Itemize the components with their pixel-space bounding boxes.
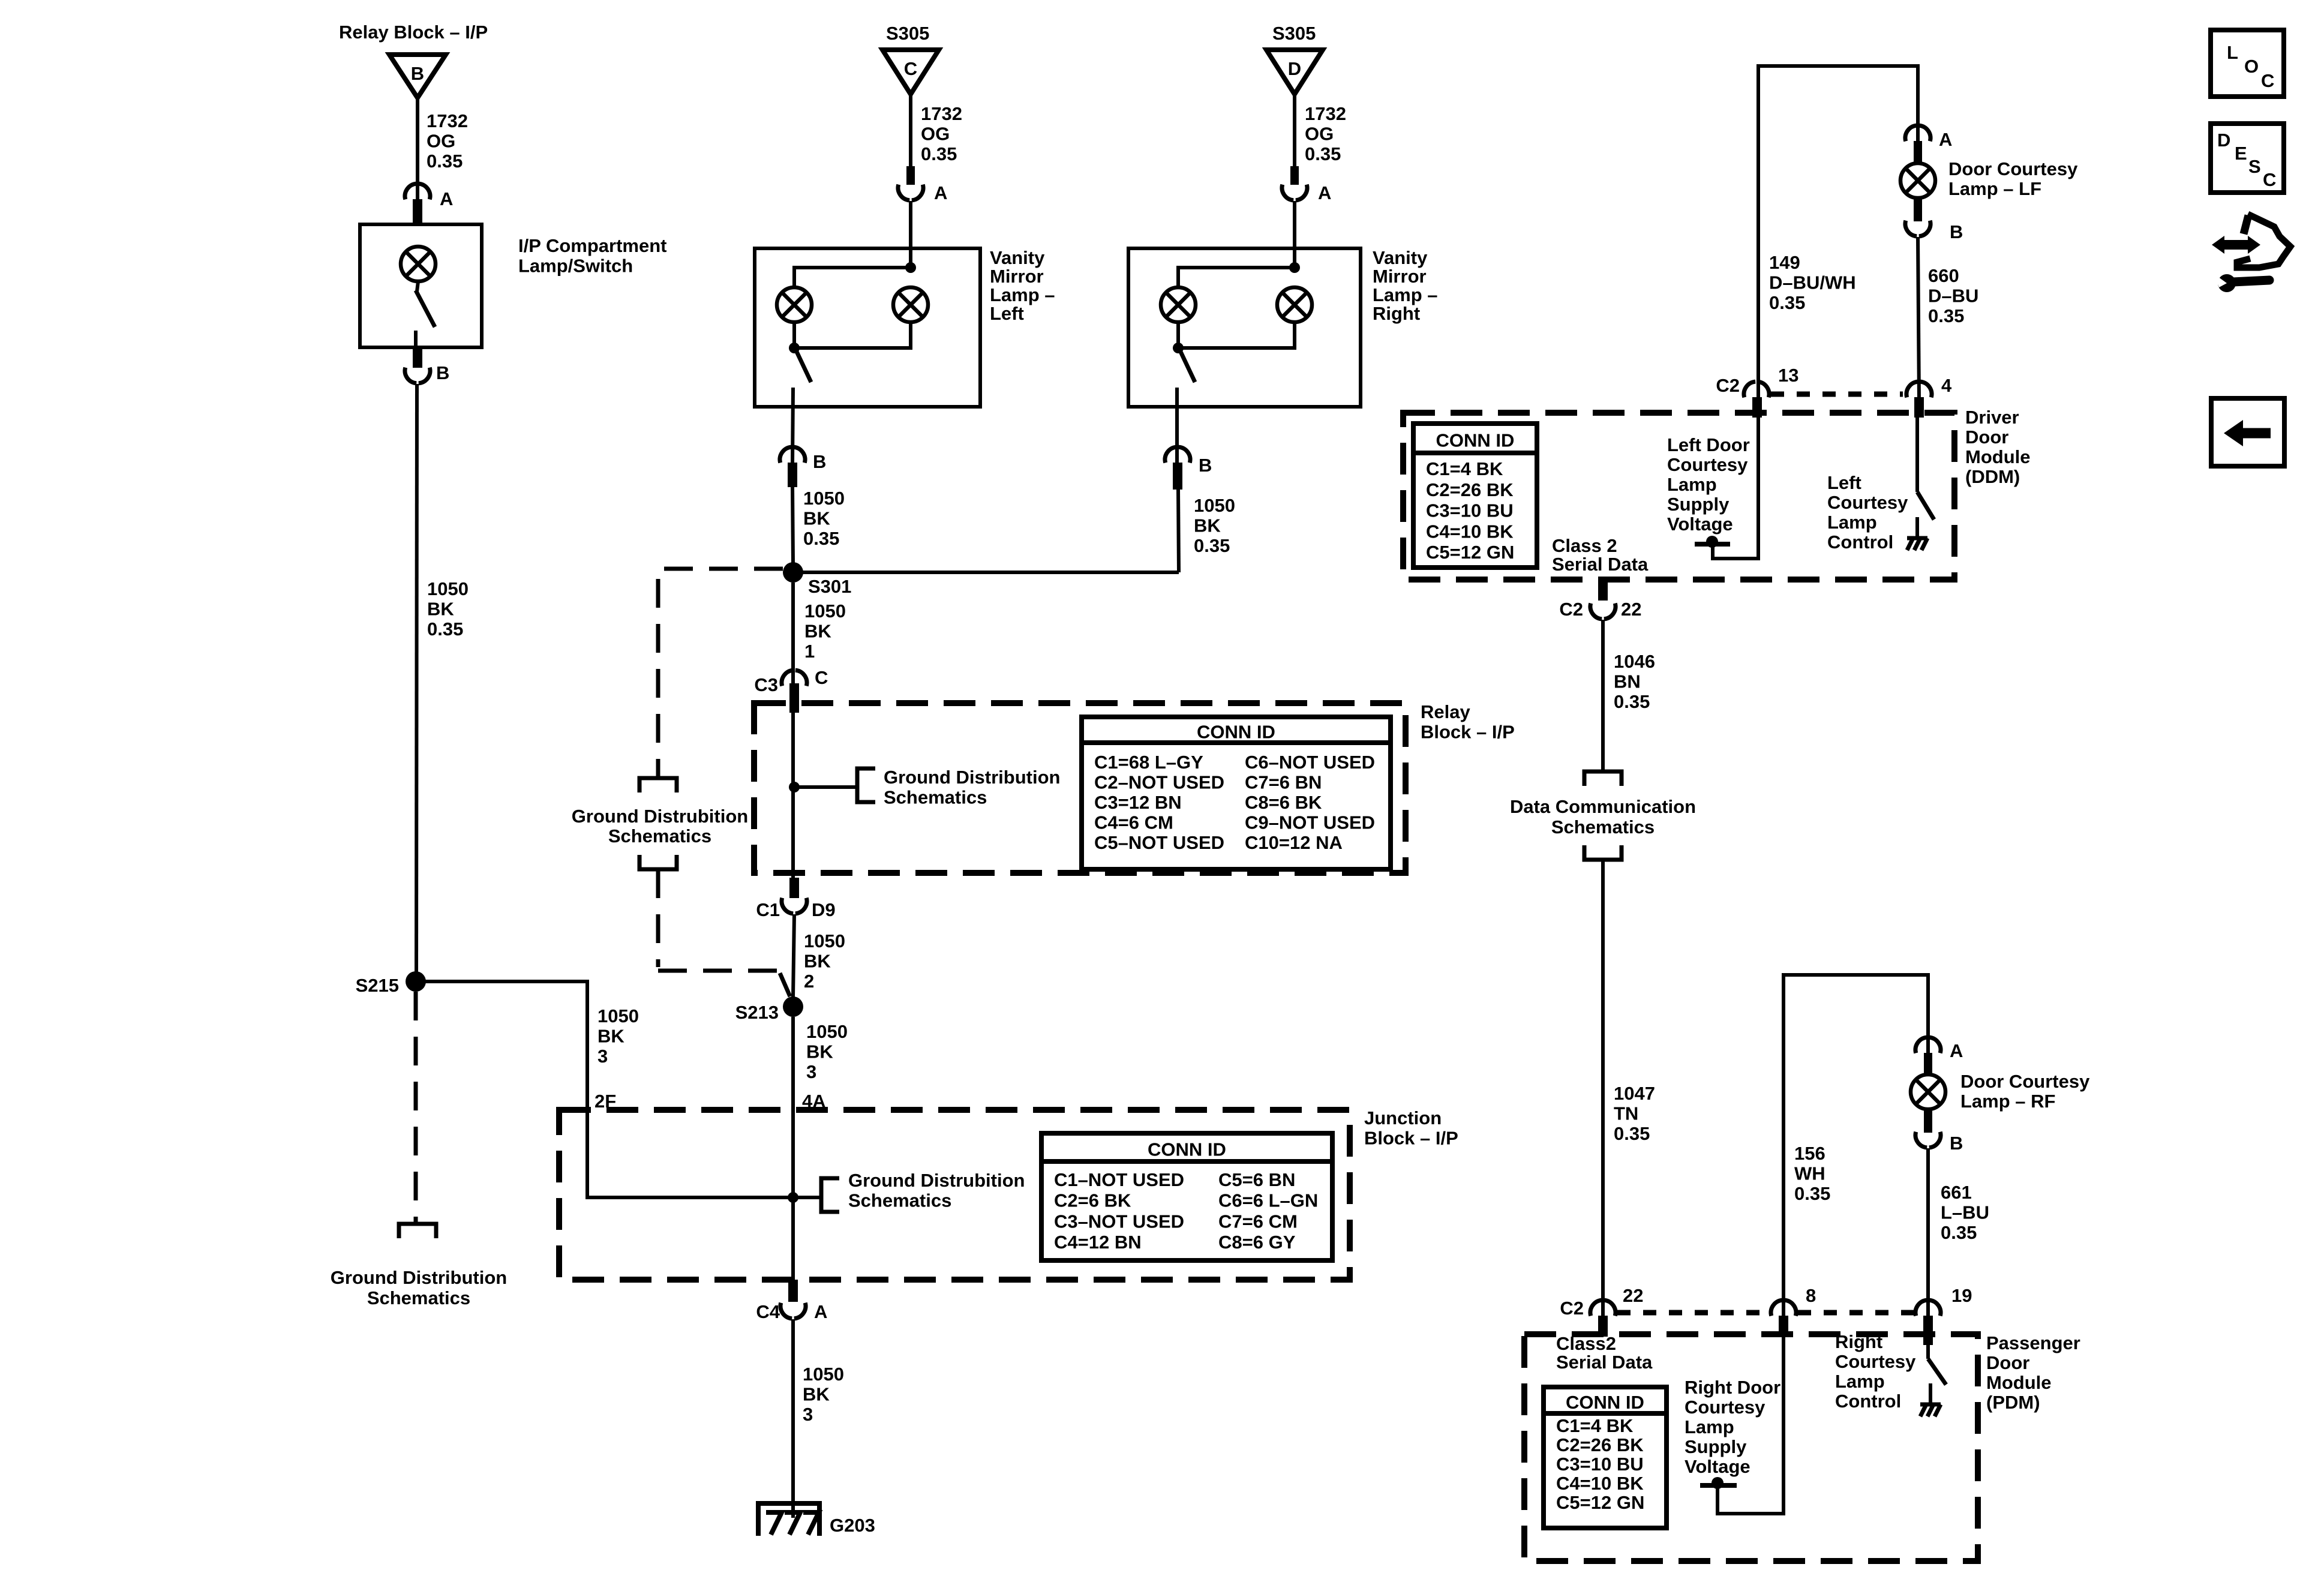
connector B of Vanity Mirror Lamp Right [1165,447,1212,476]
left bulb of Vanity Mirror Lamp Left [777,287,812,322]
svg-text:0.35: 0.35 [1928,305,1964,326]
svg-text:Voltage: Voltage [1667,514,1733,535]
right door courtesy lamp supply wire in PDM [1718,1337,1783,1514]
splice S213 [735,996,803,1023]
svg-text:Ground Distrubition: Ground Distrubition [848,1170,1025,1191]
svg-text:Lamp – LF: Lamp – LF [1948,178,2041,199]
pin stub above B (lamp RF) [1924,1108,1932,1133]
wire label 1050 BK 3 (S215 branch) [597,1005,639,1067]
connector A of I/P Compartment Lamp/Switch [405,184,453,209]
pin stub above B (lamp LF) [1914,197,1922,221]
switch contact wire out of right vanity box [1175,388,1179,463]
DDM connector boundary dotted line [1771,392,1903,397]
svg-text:1050: 1050 [803,1364,844,1385]
switch blade (left vanity) [795,349,811,382]
svg-text:1: 1 [804,641,815,662]
svg-text:Door: Door [1986,1352,2029,1373]
svg-text:0.35: 0.35 [1794,1183,1830,1204]
label Vanity Mirror Lamp – Right [1373,247,1438,324]
Junction Block – I/P dashed box [559,1110,1350,1280]
svg-text:A: A [440,188,453,209]
wire label 1050 BK 3 (below S213) [806,1021,848,1082]
svg-text:1732: 1732 [1305,103,1346,124]
svg-text:C5=12 GN: C5=12 GN [1426,542,1514,563]
right bulb of Vanity Mirror Lamp Left [893,287,928,322]
svg-text:L: L [2227,42,2238,63]
svg-text:(DDM): (DDM) [1965,466,2020,487]
wire 1050 BK to splice S301 [792,487,793,564]
svg-text:Lamp: Lamp [1685,1416,1734,1437]
pin stub below connector B (right vanity) [1173,463,1182,490]
svg-text:Right: Right [1373,303,1420,324]
svg-text:0.35: 0.35 [1305,143,1341,164]
svg-text:C6–NOT USED: C6–NOT USED [1245,752,1375,773]
wire from DDM supply up over to Door Courtesy Lamp LF [1758,66,1918,559]
svg-text:Lamp: Lamp [1667,474,1717,495]
svg-text:0.35: 0.35 [427,151,463,172]
wire label 1050 BK 0.35 [427,578,469,640]
svg-text:S: S [2248,156,2261,177]
svg-text:1047: 1047 [1614,1083,1655,1104]
chassis ground inside DDM [1907,517,1927,550]
left door courtesy lamp supply voltage wire in DDM [1713,418,1758,559]
connector pin 19 of PDM [1915,1285,1972,1316]
CONN ID table of Junction Block [1041,1133,1332,1260]
svg-text:Right: Right [1835,1331,1882,1352]
svg-text:Control: Control [1827,532,1893,553]
switch contact wire out of left vanity box [792,388,793,463]
svg-text:Relay Block – I/P: Relay Block – I/P [339,22,488,43]
pin stub below pin 19 [1923,1316,1933,1345]
svg-text:Left: Left [1827,472,1861,493]
svg-text:BK: BK [427,599,454,620]
svg-text:13: 13 [1778,365,1798,386]
svg-text:Schematics: Schematics [608,825,711,846]
label Left Courtesy Lamp Control [1827,472,1908,553]
svg-text:C1=4 BK: C1=4 BK [1556,1415,1634,1436]
ground G203 symbol [758,1503,875,1536]
svg-text:B: B [436,362,449,383]
CONN ID table of Relay Block [1082,717,1391,869]
connector B of I/P Compartment Lamp/Switch [405,362,449,383]
connector A of Vanity Mirror Lamp Left [898,182,947,203]
label Door Courtesy Lamp – LF [1948,158,2078,199]
connector pin 4 of DDM [1906,375,1952,397]
label Vanity Mirror Lamp – Left [990,247,1055,324]
label Ground Distribution Schematics (relay block) [884,767,1060,808]
svg-text:1732: 1732 [427,110,468,131]
connector A of Vanity Mirror Lamp Right [1282,182,1331,203]
svg-text:C3=10 BU: C3=10 BU [1426,500,1514,521]
wire from S301 to right vanity branch [793,571,1179,574]
svg-text:A: A [1318,182,1331,203]
label Ground Distrubition Schematics (junction block) [848,1170,1025,1211]
svg-text:C6=6 L–GN: C6=6 L–GN [1218,1190,1318,1211]
wire 1050 BK from connector B down to S215 [416,384,417,981]
svg-text:2: 2 [804,971,814,992]
svg-text:C8=6 GY: C8=6 GY [1218,1232,1296,1253]
internal wire from left bulb to switch node (right vanity) [1176,322,1180,343]
svg-text:Ground Distribution: Ground Distribution [331,1267,507,1288]
off-page connector triangle D from S305 [1266,50,1323,94]
svg-text:Passenger: Passenger [1986,1332,2080,1353]
svg-text:1050: 1050 [804,930,845,951]
svg-text:A: A [1950,1040,1963,1061]
wire through relay block [791,713,795,878]
svg-text:Lamp/Switch: Lamp/Switch [518,256,633,277]
dashed reference continues to S213 [658,869,790,996]
svg-text:C: C [2263,169,2276,190]
wire label 1732 OG 0.35 [427,110,468,172]
svg-text:C5=6 BN: C5=6 BN [1218,1169,1295,1190]
svg-text:O: O [2244,56,2259,77]
wire from node to ground distribution bracket (relay block) [794,785,857,789]
label Class 2 Serial Data (DDM) [1552,535,1649,575]
chassis ground inside PDM [1920,1383,1941,1416]
svg-text:1050: 1050 [1194,495,1235,516]
wire label 1050 BK 0.35 (right vanity) [1194,495,1235,556]
label Door Courtesy Lamp – RF [1960,1071,2090,1112]
svg-text:C3: C3 [754,674,778,695]
internal node in relay block [789,782,800,792]
svg-text:Lamp –: Lamp – [1373,284,1438,305]
svg-text:Data Communication: Data Communication [1510,796,1696,817]
lamp in I/P Compartment [401,247,436,292]
wire 1050 BK 2 from C1 to S213 [793,914,794,997]
svg-text:1732: 1732 [921,103,962,124]
wire 1050 BK 3 from C4 to ground G203 [791,1319,795,1518]
svg-text:TN: TN [1614,1103,1638,1124]
svg-text:Lamp – RF: Lamp – RF [1960,1091,2055,1112]
svg-text:Supply: Supply [1667,494,1730,515]
svg-text:S305: S305 [1272,23,1316,44]
svg-text:1050: 1050 [427,578,469,599]
svg-text:Class2: Class2 [1556,1333,1616,1354]
connector C2 pin 13 of DDM [1716,365,1798,397]
svg-text:Class 2: Class 2 [1552,535,1617,556]
svg-text:BK: BK [597,1026,624,1047]
svg-text:1050: 1050 [806,1021,848,1042]
dashed reference from S301 to ground distribution schematics [658,569,783,776]
wire 1050 BK down to S301 branch [1178,490,1179,572]
svg-text:S305: S305 [886,23,929,44]
internal wire to left bulb (left vanity) [794,268,911,287]
pin stub above connector A (left vanity) [906,166,915,185]
svg-text:3: 3 [597,1046,608,1067]
svg-text:1050: 1050 [804,601,846,622]
svg-text:C1=4 BK: C1=4 BK [1426,458,1503,479]
svg-text:Mirror: Mirror [1373,266,1427,287]
wire label 1732 OG 0.35 (right vanity) [1305,103,1346,164]
svg-text:A: A [934,182,947,203]
svg-text:660: 660 [1928,265,1959,286]
svg-text:D–BU/WH: D–BU/WH [1769,272,1856,293]
label Ground Distrubition Schematics (left reference) [572,806,748,846]
svg-text:0.35: 0.35 [803,528,839,549]
connector C1/D9 out of Relay Block [756,898,835,920]
internal wire from right bulb down and left (right vanity) [1183,322,1295,348]
svg-text:OG: OG [427,131,455,152]
pin stub below C3 [789,683,799,713]
svg-text:Door Courtesy: Door Courtesy [1948,158,2078,179]
svg-text:Schematics: Schematics [848,1190,951,1211]
label Ground Distribution Schematics (below S215) [331,1267,507,1308]
svg-text:C1–NOT USED: C1–NOT USED [1054,1169,1184,1190]
svg-text:0.35: 0.35 [1769,292,1805,313]
svg-text:BN: BN [1614,671,1641,692]
internal node at top of left vanity lamps [905,262,916,273]
pin stub below PDM C2-22 [1598,1316,1608,1337]
svg-text:149: 149 [1769,252,1800,273]
svg-text:C8=6 BK: C8=6 BK [1245,792,1322,813]
svg-text:4: 4 [1941,375,1952,396]
svg-text:Courtesy: Courtesy [1667,454,1748,475]
terminal label 2F [594,1091,616,1112]
svg-text:Block – I/P: Block – I/P [1421,722,1515,743]
svg-text:C10=12 NA: C10=12 NA [1245,832,1343,853]
LOC icon box [2211,30,2284,97]
svg-text:I/P Compartment: I/P Compartment [518,235,666,256]
svg-text:C2: C2 [1559,599,1583,620]
svg-text:D: D [2217,130,2230,151]
connector A of Door Courtesy Lamp LF [1905,125,1952,150]
svg-text:Courtesy: Courtesy [1685,1397,1765,1418]
back arrow icon box [2211,398,2284,466]
svg-text:BK: BK [804,621,831,642]
label Left Door Courtesy Lamp Supply Voltage [1667,434,1750,535]
DESC icon box [2211,124,2284,193]
svg-text:Serial Data: Serial Data [1552,554,1649,575]
svg-text:Vanity: Vanity [990,247,1045,268]
svg-text:C9–NOT USED: C9–NOT USED [1245,812,1375,833]
svg-text:BK: BK [803,508,830,529]
svg-text:C7=6 BN: C7=6 BN [1245,772,1322,793]
wire 1732 OG from triangle C [909,94,912,167]
ground distribution reference bracket (top) [639,778,677,792]
Door Courtesy Lamp – LF [1900,163,1935,198]
svg-text:Lamp: Lamp [1827,512,1877,533]
CONN ID table of DDM [1413,424,1537,568]
svg-text:Left Door: Left Door [1667,434,1750,455]
label Right Courtesy Lamp Control [1835,1331,1916,1412]
left bulb of Vanity Mirror Lamp Right [1161,287,1196,322]
svg-text:C7=6 CM: C7=6 CM [1218,1211,1298,1232]
wire label 1050 BK 1 [804,601,846,662]
svg-text:Relay: Relay [1421,701,1470,722]
svg-text:BK: BK [804,951,831,972]
svg-text:0.35: 0.35 [1614,1123,1650,1144]
svg-text:C1: C1 [756,899,780,920]
pin stub below connector B (left vanity) [788,463,797,487]
svg-text:Schematics: Schematics [1551,816,1655,837]
wire label 1046 BN 0.35 [1614,651,1655,712]
splice S215 [356,971,426,996]
wire label 1047 TN 0.35 [1614,1083,1655,1144]
svg-text:22: 22 [1621,599,1641,620]
right bulb of Vanity Mirror Lamp Right [1277,287,1312,322]
svg-text:1050: 1050 [597,1005,639,1026]
svg-text:D: D [1288,58,1301,79]
connector end view icon [2212,214,2290,292]
wire from connector A into Vanity Mirror Lamp Left box [909,201,912,268]
supply voltage internal source symbol (PDM) [1700,1477,1737,1489]
svg-text:C: C [2261,70,2274,91]
label Data Communication Schematics [1510,796,1696,837]
switch in I/P Compartment [416,290,435,347]
splice label S305 (right) [1272,23,1316,44]
pin stub above C4/A [788,1280,798,1302]
svg-text:G203: G203 [830,1515,875,1536]
wire 1047 TN from data comm ref to PDM [1601,860,1605,1319]
svg-text:22: 22 [1623,1285,1643,1306]
svg-text:Door Courtesy: Door Courtesy [1960,1071,2090,1092]
svg-text:CONN ID: CONN ID [1436,430,1515,451]
svg-text:Courtesy: Courtesy [1827,492,1908,513]
wire 1050 BK 1 from S301 to C3 [791,583,795,686]
svg-text:S301: S301 [808,576,851,597]
svg-text:D9: D9 [812,899,836,920]
internal node in junction block [788,1192,798,1203]
svg-text:BK: BK [803,1384,830,1405]
left courtesy lamp control switch in DDM [1917,418,1934,520]
svg-text:OG: OG [921,124,950,145]
svg-text:C2–NOT USED: C2–NOT USED [1094,772,1224,793]
svg-text:0.35: 0.35 [921,143,957,164]
data communication reference bracket (bottom) [1584,845,1622,860]
internal node at switch (right vanity) [1173,343,1184,353]
pin stub below pin 8 [1779,1316,1788,1337]
switch blade (right vanity) [1179,349,1195,382]
svg-text:C2: C2 [1560,1298,1584,1319]
label Class2 Serial Data (PDM) [1556,1333,1653,1373]
svg-text:D–BU: D–BU [1928,286,1978,307]
Passenger Door Module dashed box [1524,1334,1978,1561]
off-page connector triangle C from S305 [882,50,939,94]
pin stub below C2-13 [1752,397,1762,418]
splice label S305 (left) [886,23,929,44]
svg-text:C3=10 BU: C3=10 BU [1556,1454,1644,1475]
pin stub above connector A (right vanity) [1290,166,1299,185]
svg-text:Driver: Driver [1965,407,2019,428]
label Driver Door Module (DDM) [1965,407,2031,487]
data communication reference bracket (top) [1584,772,1622,786]
wire label 660 D–BU 0.35 [1928,265,1978,326]
pin stub below A (lamp RF) [1924,1053,1932,1076]
svg-text:Voltage: Voltage [1685,1456,1750,1477]
svg-text:CONN ID: CONN ID [1566,1392,1644,1413]
svg-text:OG: OG [1305,124,1334,145]
svg-text:C4=10 BK: C4=10 BK [1556,1473,1644,1494]
svg-text:(PDM): (PDM) [1986,1392,2040,1413]
dashed wire from S215 to ground distribution reference [414,992,418,1222]
svg-text:C2: C2 [1716,375,1740,396]
svg-text:C4=6 CM: C4=6 CM [1094,812,1173,833]
connector A of Door Courtesy Lamp RF [1915,1037,1963,1061]
internal node at top of right vanity lamps [1289,262,1300,273]
internal node at switch (left vanity) [789,343,800,353]
ground distribution reference bracket (bottom) [639,855,677,869]
wire label 1050 BK 0.35 (left vanity) [803,488,845,549]
svg-text:8: 8 [1806,1285,1816,1306]
connector B of Vanity Mirror Lamp Left [780,447,826,472]
pin stub below pin 4 [1914,397,1924,418]
svg-text:0.35: 0.35 [427,619,463,640]
off-page connector triangle B to Relay Block – I/P [339,22,488,98]
right courtesy lamp control switch in PDM [1928,1345,1946,1385]
svg-text:C: C [815,667,828,688]
svg-text:0.35: 0.35 [1941,1222,1977,1243]
svg-text:B: B [1199,455,1212,476]
connector B of Door Courtesy Lamp RF [1915,1132,1963,1154]
Vanity Mirror Lamp Left box [755,248,980,407]
svg-text:BK: BK [806,1041,833,1062]
wire 660 D–BU from lamp LF to DDM pin 4 [1918,237,1919,401]
svg-text:Right Door: Right Door [1685,1377,1780,1398]
svg-text:Module: Module [1965,446,2031,467]
svg-text:A: A [814,1301,827,1322]
internal wire from right bulb down and left (left vanity) [799,322,911,348]
pin stub into I/P Compartment box [413,199,422,224]
svg-text:Ground Distribution: Ground Distribution [884,767,1060,788]
Vanity Mirror Lamp Right box [1128,248,1361,407]
svg-text:Block – I/P: Block – I/P [1364,1128,1458,1149]
svg-text:156: 156 [1794,1143,1825,1164]
svg-text:C4=12 BN: C4=12 BN [1054,1232,1142,1253]
svg-text:C4: C4 [756,1301,780,1322]
svg-text:C4=10 BK: C4=10 BK [1426,521,1514,542]
svg-text:0.35: 0.35 [1614,691,1650,712]
svg-text:Junction: Junction [1364,1107,1442,1128]
wire label 1732 OG 0.35 (left vanity) [921,103,962,164]
svg-text:WH: WH [1794,1163,1825,1184]
connector C4/A below Junction Block [756,1301,827,1322]
pin stub below I/P Compartment box [413,347,422,368]
label Passenger Door Module (PDM) [1986,1332,2080,1413]
wire 1046 BN from DDM to data communication ref [1601,620,1605,770]
svg-text:Schematics: Schematics [884,787,987,808]
svg-text:Serial Data: Serial Data [1556,1352,1653,1373]
label Right Door Courtesy Lamp Supply Voltage [1685,1377,1780,1477]
ground distribution reference bracket below S215 [399,1224,436,1238]
wire from PDM supply up over to Door Courtesy Lamp RF [1783,975,1928,1514]
svg-text:S215: S215 [356,975,399,996]
svg-text:3: 3 [806,1061,816,1082]
svg-text:BK: BK [1194,515,1221,536]
svg-text:Control: Control [1835,1391,1901,1412]
terminal label 4A [802,1091,826,1112]
svg-text:Ground Distrubition: Ground Distrubition [572,806,748,827]
svg-text:Courtesy: Courtesy [1835,1351,1916,1372]
wire from connector A into Vanity Mirror Lamp Right box [1293,201,1296,268]
internal wire to left bulb (right vanity) [1178,268,1295,287]
Door Courtesy Lamp – RF [1911,1074,1945,1109]
svg-text:B: B [813,451,826,472]
svg-text:Module: Module [1986,1372,2052,1393]
Driver Door Module dashed box [1403,413,1954,580]
wire 1732 OG from triangle D [1293,94,1296,167]
svg-text:B: B [411,63,424,84]
svg-text:Supply: Supply [1685,1436,1747,1457]
wire 661 L–BU from lamp RF to PDM pin 19 [1926,1148,1930,1319]
svg-text:L–BU: L–BU [1941,1202,1989,1223]
pin stub above DDM C2-22 [1598,580,1608,601]
svg-text:1046: 1046 [1614,651,1655,672]
Relay Block – I/P dashed box [754,703,1406,873]
ground distribution bracket in relay block [857,769,875,802]
connector C2 pin 22 of PDM [1560,1285,1643,1319]
connector B of Door Courtesy Lamp LF [1905,221,1963,242]
svg-text:C2=26 BK: C2=26 BK [1556,1434,1644,1455]
